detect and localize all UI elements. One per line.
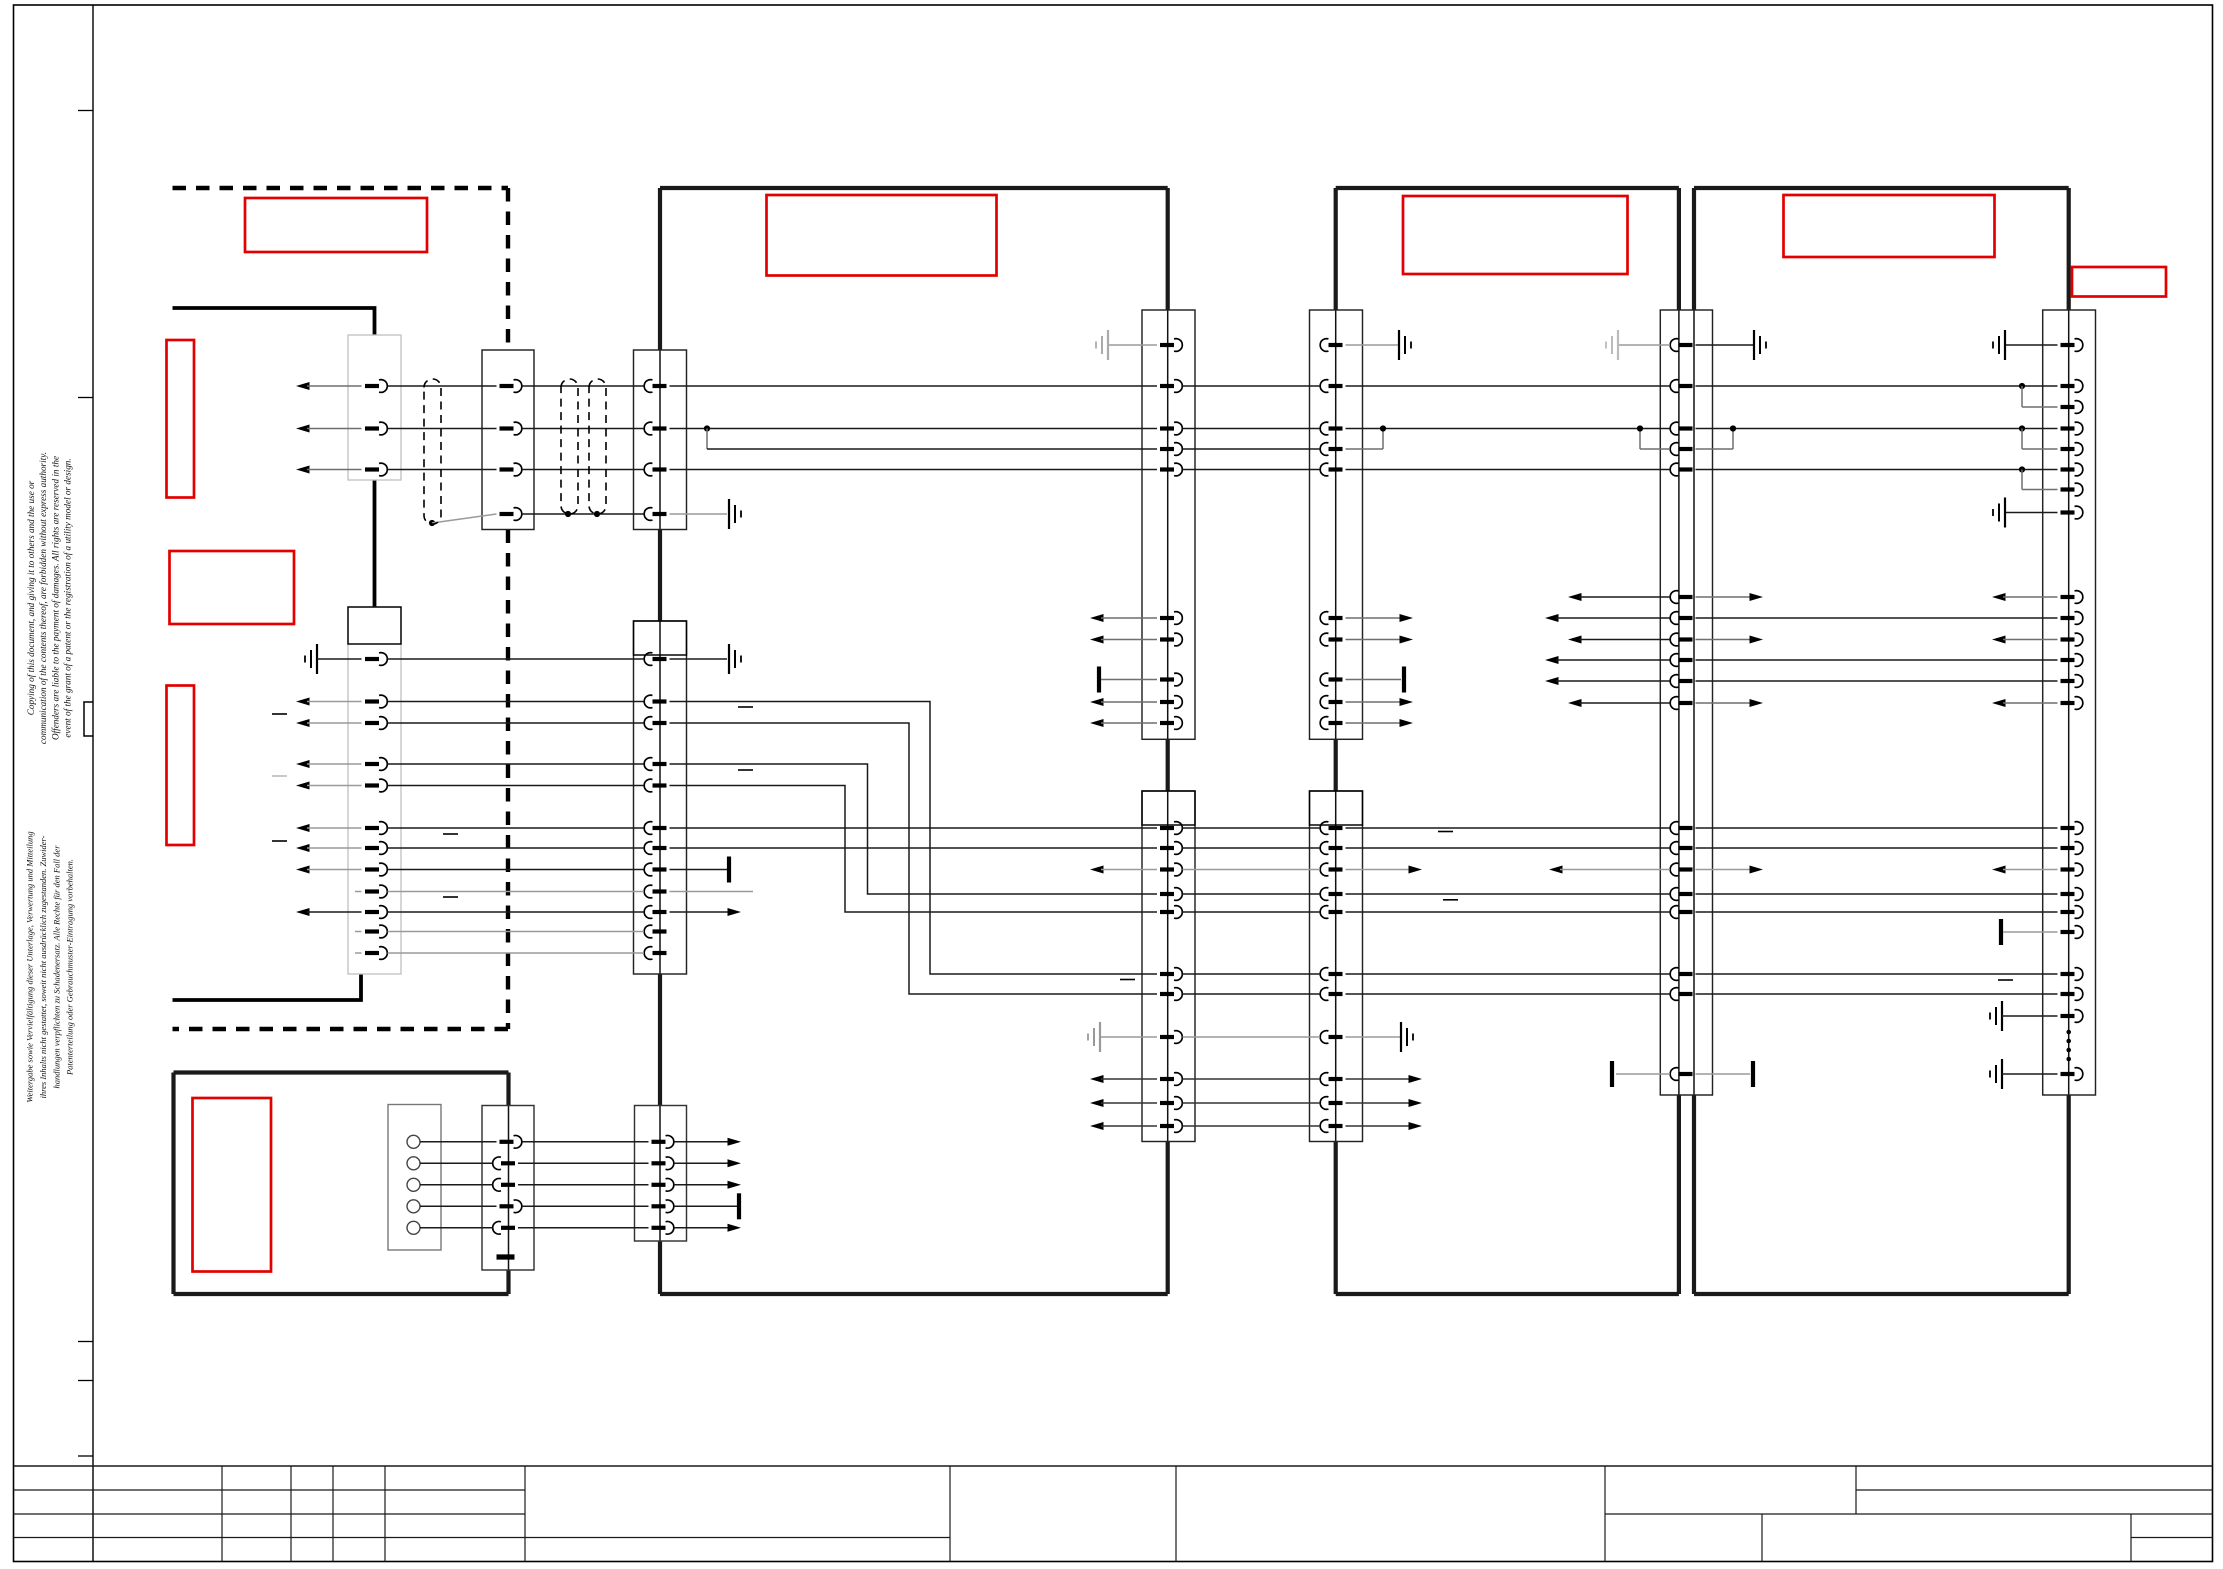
wire X7-X8 row 618 — [1696, 617, 2058, 619]
wire X6b-X7 row 828 — [1346, 827, 1671, 829]
cable pair 1 — [424, 379, 441, 524]
wire X6b-X7 row 912 — [1346, 911, 1671, 913]
wire row A: X3 to X4 — [522, 385, 644, 387]
ground at X6a — [1346, 344, 1400, 346]
ground at X5a — [1108, 344, 1157, 346]
connector X5a pin 6 — [1160, 616, 1174, 620]
X10 arrow row 5 — [674, 1227, 729, 1229]
connector X7 pin 15 — [1679, 892, 1693, 896]
X7 arrow left row 597 — [1568, 593, 1582, 601]
X4b row 869.5 terminator — [670, 869, 728, 871]
box4 right edge through X8 — [2068, 310, 2070, 1095]
X6a arrow row 618 — [1346, 617, 1402, 619]
connector X2 pin 8 — [365, 867, 379, 871]
wire X5b-X6b row 912 — [1183, 911, 1321, 913]
box3 right edge through X7 — [1678, 310, 1680, 1095]
wire X7-X8 row 894 — [1696, 893, 2058, 895]
connector X7 pin 16 — [1679, 910, 1693, 914]
connector X7 pin 7 — [1679, 616, 1693, 620]
box3 left edge through X6a — [1335, 310, 1337, 739]
X6a arrow row 702 — [1346, 701, 1402, 703]
wire row 974: X6b to X7 — [1346, 973, 1671, 975]
connector X10 pin 3 — [652, 1183, 666, 1187]
X7 arrow left row 639.5 — [1568, 636, 1582, 644]
connector X4b pin 8 — [653, 867, 667, 871]
wire X7-X8 row 828 — [1696, 827, 2058, 829]
X8 arrow row 597 — [1992, 593, 2006, 601]
svg-text:Weitergabe sowie Vervielfältig: Weitergabe sowie Vervielfältigung dieser… — [25, 831, 35, 1102]
wire row D: X1 to X3 — [388, 469, 497, 471]
ground at X8 row 1016 — [2001, 1001, 2003, 1031]
wire row E: X3 to X4 with cable shield dots — [522, 513, 644, 515]
connector X3 — [482, 350, 534, 530]
connector X7 pin 17 — [1679, 972, 1693, 976]
connector X4 — [634, 350, 687, 530]
red label box (unit 3) — [1403, 196, 1628, 274]
wire row A: X5a to X6a — [1183, 385, 1321, 387]
connector X2 pin 10 — [365, 910, 379, 914]
X7 terminators row 1074 — [1610, 1061, 1614, 1087]
connector X8 pin 5 — [2061, 447, 2075, 451]
connector X4 pin 4 — [653, 512, 667, 516]
box4 left edge through X7 — [1693, 310, 1695, 1095]
wire X7-X8 row 848 — [1696, 847, 2058, 849]
connector X1 pin 1 — [365, 384, 379, 388]
connector X4b pin 1 — [653, 657, 667, 661]
connector X6a pin 9 — [1329, 700, 1343, 704]
connector X7 pin 2 — [1679, 384, 1693, 388]
connector X4 pin 3 — [653, 467, 667, 471]
wire row 1103 X5b-X6b with arrows — [1090, 1099, 1104, 1107]
terminal TB circle 2 — [407, 1157, 420, 1170]
X7 arrow right row 639.5 — [1696, 639, 1753, 641]
wire row A: X1 to X3 — [388, 385, 497, 387]
connector X2 pin 2 — [365, 699, 379, 703]
wire row 974: X5b to X6b — [1183, 973, 1321, 975]
tick row 974 left — [1120, 979, 1135, 981]
wire row A: X7 to X8 — [1696, 385, 2058, 387]
wire row 1126 X5b-X6b with arrows — [1090, 1122, 1104, 1130]
connector X2 — [348, 607, 401, 974]
wire row B: X6a to X7 — [1346, 428, 1671, 430]
wire X6b-X7 row 848 — [1346, 847, 1671, 849]
red label box (unit 4) — [1784, 195, 1995, 257]
X4b row 912 arrow right — [670, 911, 730, 913]
connector X6a pin 8 — [1329, 677, 1343, 681]
connector X8 pin 12 — [2061, 658, 2075, 662]
connector X9 pin 5 — [501, 1226, 515, 1230]
connector X6b pin 2 — [1329, 846, 1343, 850]
box5 right edge through X9 — [508, 1106, 510, 1271]
wire row C: X5a to X6a — [1183, 448, 1321, 450]
connector X5b pin 8 — [1160, 1035, 1174, 1039]
wire row D arrow (left) — [296, 466, 310, 474]
connector X5a pin 5 — [1160, 467, 1174, 471]
connector X3 pin 4 — [500, 512, 514, 516]
X2 long arrow row 912 — [296, 908, 310, 916]
connector X5b pin 11 — [1160, 1124, 1174, 1128]
wire X5b-X6b row 869.5 — [1183, 869, 1321, 871]
X8 terminator row 932 — [1999, 919, 2003, 945]
wire TB to X9 row 4 — [420, 1205, 497, 1207]
wire X9 to X10 row 2 — [518, 1162, 649, 1164]
X2 pin wire arrow row 848 — [296, 844, 310, 852]
ground at X4b row 659 — [670, 658, 728, 660]
unit box 4 outline — [1694, 188, 2069, 1294]
X2 pin wire arrow row 869.5 — [296, 866, 310, 874]
red label box small right — [2072, 267, 2166, 297]
X10 arrow row 3 — [674, 1184, 729, 1186]
wire row D: X5a to X6a — [1183, 469, 1321, 471]
staircase wire 1 (row 701.5 to row 974) — [670, 702, 1158, 975]
connector X6a pin 5 — [1329, 467, 1343, 471]
staircase wire 2 (row 723 to row 994) — [670, 723, 1158, 994]
connector X10 pin 5 — [652, 1226, 666, 1230]
ground row 1037 (X5b grey, X6b black) — [1099, 1022, 1101, 1052]
wire X2-X4b row 891.5 (grey) — [388, 891, 645, 893]
X2 stub row 891.5 — [355, 891, 362, 893]
connector X9 — [482, 1106, 534, 1271]
connector X6a pin 1 — [1329, 343, 1343, 347]
connector X8 pin 19 — [2061, 910, 2075, 914]
connector X5b — [1142, 791, 1195, 1142]
connector X6a pin 7 — [1329, 637, 1343, 641]
terminal TB circle 4 — [407, 1200, 420, 1213]
connector X3 pin 1 — [500, 384, 514, 388]
X7 arrow right row 703 — [1696, 702, 1753, 704]
connector X7 pin 1 — [1679, 343, 1693, 347]
box2 left edge through X4b — [659, 621, 661, 974]
box2 left edge through X4 — [659, 350, 661, 530]
connector X7 pin 10 — [1679, 679, 1693, 683]
connector X8 ellipsis — [2066, 1030, 2071, 1035]
connector X4b — [634, 621, 687, 974]
connector X8 — [2043, 310, 2096, 1095]
ground at X8 row 512 — [2005, 512, 2058, 514]
connector X7 pin 8 — [1679, 637, 1693, 641]
wire row C stubs at X6a — [1346, 448, 1384, 450]
connector X7 pin 11 — [1679, 701, 1693, 705]
connector X8 pin 16 — [2061, 846, 2075, 850]
unit box 2 outline — [660, 188, 1168, 1294]
connector X7 pin 18 — [1679, 992, 1693, 996]
connector X7 pin 14 — [1679, 867, 1693, 871]
connector X9 spare pin — [497, 1254, 515, 1259]
wire row 994: X7 to X8 — [1696, 993, 2058, 995]
connector X8 pin 11 — [2061, 637, 2075, 641]
connector X5b pin 5 — [1160, 910, 1174, 914]
connector X5a pin 1 — [1160, 343, 1174, 347]
wire X7-X8 row 660 — [1696, 659, 2058, 661]
X5a arrow row 639.5 — [1090, 636, 1104, 644]
connector X5b pin 4 — [1160, 892, 1174, 896]
wire row D: X6a to X7 — [1346, 469, 1671, 471]
X6b arrow row 869.5 — [1346, 869, 1411, 871]
connector X1 — [348, 335, 401, 480]
connector X3 pin 3 — [500, 467, 514, 471]
connector X2 pin 5 — [365, 783, 379, 787]
X6a arrow row 723 — [1346, 722, 1402, 724]
wire X2-X4b row 764 — [388, 763, 645, 765]
wire row E: X4 to ground — [670, 513, 728, 515]
connector X5a pin 8 — [1160, 677, 1174, 681]
svg-text:event of the grant of a patent: event of the grant of a patent or the re… — [63, 458, 73, 737]
connector X10 — [635, 1106, 687, 1242]
unit box 5 outline — [174, 1073, 509, 1295]
connector X2 pin 9 — [365, 889, 379, 893]
thick wire into connector X1 — [173, 308, 375, 335]
svg-text:ihres Inhalts nicht gestattet,: ihres Inhalts nicht gestattet, soweit ni… — [38, 835, 48, 1098]
connector X6b pin 6 — [1329, 972, 1343, 976]
connector X7 pin 6 — [1679, 595, 1693, 599]
X6a terminator row 679.5 — [1346, 679, 1402, 681]
X8 arrow row 639.5 — [1992, 636, 2006, 644]
wire row D: X3 to X4 — [522, 469, 644, 471]
wire row B: X7 to X8 — [1696, 428, 2058, 430]
connector X8 pin 1 — [2061, 343, 2075, 347]
connector X5a pin 4 — [1160, 447, 1174, 451]
connector X2 pin 4 — [365, 762, 379, 766]
connector X5b pin 3 — [1160, 867, 1174, 871]
X8 pin pair stubs — [2019, 383, 2025, 389]
wire row C inside box2 — [704, 425, 710, 431]
wire X2-X4b row 659 — [388, 658, 645, 660]
X5a arrow row 702 — [1090, 698, 1104, 706]
wire X4b row 848 to X5b — [670, 847, 1158, 849]
connector X7 pin 12 — [1679, 826, 1693, 830]
X2 pin wire arrow row 785.5 — [296, 782, 310, 790]
wire row A: X6a to X7 — [1346, 385, 1671, 387]
connector X6a pin 2 — [1329, 384, 1343, 388]
wire row A arrow (left) — [296, 382, 310, 390]
connector X4b pin 10 — [653, 910, 667, 914]
connector X4b pin 12 — [653, 951, 667, 955]
connector X2 pin 11 — [365, 929, 379, 933]
ground left of X7 — [1618, 344, 1670, 346]
ground at X8 row 1074 — [2001, 1059, 2003, 1089]
wire X2-X4b row 869.5 — [388, 869, 645, 871]
connector X8 pin 4 — [2061, 426, 2075, 430]
svg-text:handlungen verpflichten zu Sch: handlungen verpflichten zu Schadenersatz… — [51, 845, 61, 1089]
X2 pin wire arrow row 723 — [296, 719, 310, 727]
wire X5b-X6b row 894 — [1183, 893, 1321, 895]
connector X8 pin 3 — [2061, 405, 2075, 409]
connector X5a pin 10 — [1160, 721, 1174, 725]
connector X4b pin 11 — [653, 929, 667, 933]
X7 arrow left row 660 — [1545, 656, 1559, 664]
connector X5b pin 9 — [1160, 1077, 1174, 1081]
connector X7 pin 4 — [1679, 447, 1693, 451]
ground right of X7 — [1696, 344, 1755, 346]
wire TB to X9 row 2 — [420, 1162, 493, 1164]
X6a arrow row 639.5 — [1346, 639, 1402, 641]
connector X10 pin 4 — [652, 1204, 666, 1208]
X7 arrow left row 703 — [1568, 699, 1582, 707]
box2 right edge through X5a — [1167, 310, 1169, 739]
connector X4 pin 1 — [653, 384, 667, 388]
X5a arrow row 618 — [1090, 614, 1104, 622]
connector X5b pin 1 — [1160, 826, 1174, 830]
thick wire X2 bottom — [173, 974, 362, 1000]
X2 pin wire arrow row 828 — [296, 824, 310, 832]
connector X6a pin 4 — [1329, 447, 1343, 451]
connector X7 pin 3 — [1679, 426, 1693, 430]
tick row 974 — [1998, 979, 2013, 981]
connector X6a pin 6 — [1329, 616, 1343, 620]
box2 left edge through X10 — [659, 1106, 661, 1242]
wire row D: X7 to X8 — [1696, 469, 2058, 471]
connector X8 pin 21 — [2061, 972, 2075, 976]
connector X8 pin 13 — [2061, 679, 2075, 683]
wire X6b-X7 row 894 — [1346, 893, 1671, 895]
wire X2-X4b row 723 — [388, 722, 645, 724]
X7 arrow right row 597 — [1696, 596, 1753, 598]
wire X5b-X6b row 828 — [1183, 827, 1321, 829]
wire row B: X3 to X4 — [522, 428, 644, 430]
connector X6a — [1310, 310, 1363, 739]
wire row 1079 X5b-X6b with arrows — [1090, 1075, 1104, 1083]
connector X8 pin 14 — [2061, 701, 2075, 705]
X7 arrows row 869.5 — [1549, 866, 1563, 874]
ground at X2 row 659 — [316, 644, 318, 674]
X10 arrow row 1 — [674, 1141, 729, 1143]
connector X2 pin 7 — [365, 846, 379, 850]
wire X2-X4b row 701.5 — [388, 701, 645, 703]
wire X9 to X10 row 1 — [522, 1141, 649, 1143]
connector X5b pin 2 — [1160, 846, 1174, 850]
wire X4b row 828 to X5b — [670, 827, 1158, 829]
wire X2-X4b row 953 (grey) — [388, 952, 645, 954]
X10 arrow row 2 — [674, 1162, 729, 1164]
connector X8 pin 24 — [2061, 1072, 2075, 1076]
connector X2 pin 1 — [365, 657, 379, 661]
connector X7 pin 19 — [1679, 1072, 1693, 1076]
connector X6b pin 8 — [1329, 1035, 1343, 1039]
connector X3 pin 2 — [500, 426, 514, 430]
frame left column divider — [92, 5, 94, 1562]
wire TB to X9 row 3 — [420, 1184, 493, 1186]
terminal TB circle 3 — [407, 1178, 420, 1191]
connector X7 pin 13 — [1679, 846, 1693, 850]
connector X8 pin 15 — [2061, 826, 2075, 830]
X8 arrow row 703 — [1992, 699, 2006, 707]
wire X2-X4b row 828 — [388, 827, 645, 829]
connector X7 pin 9 — [1679, 658, 1693, 662]
connector X6b pin 3 — [1329, 867, 1343, 871]
connector X6b pin 4 — [1329, 892, 1343, 896]
connector X8 pin 6 — [2061, 467, 2075, 471]
staircase wire 3 (row 764 to row 894) — [670, 764, 1158, 894]
svg-text:Patenterteilung oder Gebrauchm: Patenterteilung oder Gebrauchmuster-Eint… — [65, 859, 75, 1076]
wire row 994: X6b to X7 — [1346, 993, 1671, 995]
connector X6b pin 1 — [1329, 826, 1343, 830]
wire row B arrow (left) — [296, 425, 310, 433]
connector X1 pin 2 — [365, 426, 379, 430]
connector X6b pin 5 — [1329, 910, 1343, 914]
connector X9 pin 2 — [501, 1161, 515, 1165]
connector X2 pin 12 — [365, 951, 379, 955]
wire X2-X4b row 785.5 — [388, 785, 645, 787]
X5a arrow row 723 — [1090, 719, 1104, 727]
box2 right edge through X5b — [1167, 791, 1169, 1142]
X2 pin wire arrow row 764 — [296, 760, 310, 768]
connector X1 pin 3 — [365, 467, 379, 471]
X7 arrow left row 681 — [1545, 677, 1559, 685]
connector X5a pin 7 — [1160, 637, 1174, 641]
connector X9 pin 1 — [500, 1140, 514, 1144]
wire row B: X1 to X3 — [388, 428, 497, 430]
red label box mid — [170, 551, 295, 624]
connector X2 pin 6 — [365, 826, 379, 830]
frame centering ticks — [78, 110, 93, 112]
title block — [14, 1466, 2213, 1562]
box3 left edge through X6b — [1335, 791, 1337, 1142]
connector X10 pin 1 — [652, 1140, 666, 1144]
cable pair 2 — [561, 379, 578, 514]
connector X5b pin 10 — [1160, 1101, 1174, 1105]
connector X8 pin 23 — [2061, 1014, 2075, 1018]
svg-text:Offenders are liable to the pa: Offenders are liable to the payment of d… — [50, 456, 60, 740]
connector X4b pin 5 — [653, 783, 667, 787]
connector X8 pin 2 — [2061, 384, 2075, 388]
wire row B: X5a to X6a — [1183, 428, 1321, 430]
terminal block TB — [388, 1105, 441, 1251]
connector X10 pin 2 — [652, 1161, 666, 1165]
connector X4b pin 4 — [653, 762, 667, 766]
connector X8 pin 9 — [2061, 595, 2075, 599]
connector X8 pin 7 — [2061, 487, 2075, 491]
wire X2-X4b row 848 — [388, 847, 645, 849]
connector X6a pin 10 — [1329, 721, 1343, 725]
wire X9 to X10 row 4 — [522, 1205, 649, 1207]
wire X9 to X10 row 3 — [518, 1184, 649, 1186]
connector X6a pin 3 — [1329, 426, 1343, 430]
wire X9 to X10 row 5 — [518, 1227, 649, 1229]
connector X4b pin 9 — [653, 889, 667, 893]
wire X7-X8 row 912 — [1696, 911, 2058, 913]
connector X4b pin 7 — [653, 846, 667, 850]
connector X8 pin 20 — [2061, 930, 2075, 934]
wire row C stubs at X7 — [1640, 448, 1670, 450]
connector X4b pin 6 — [653, 826, 667, 830]
wire X7-X8 row 681 — [1696, 680, 2058, 682]
connector X5b pin 7 — [1160, 992, 1174, 996]
wire number ticks left — [272, 713, 287, 715]
dashed enclosure outline — [173, 186, 509, 190]
wire X2-X4b row 912 — [388, 911, 645, 913]
X10 terminator row 4 — [674, 1205, 737, 1207]
wire row 994: X5b to X6b — [1183, 993, 1321, 995]
connector X2 pin 3 — [365, 721, 379, 725]
connector X6b — [1310, 791, 1363, 1142]
connector X5a pin 2 — [1160, 384, 1174, 388]
connector X4b pin 3 — [653, 721, 667, 725]
red label box (unit 2) — [767, 195, 997, 276]
connector X8 pin 22 — [2061, 992, 2075, 996]
connector X9 pin 4 — [500, 1204, 514, 1208]
X5a terminator row 679.5 — [1097, 667, 1101, 693]
connector X8 pin 17 — [2061, 867, 2075, 871]
connector X4 pin 2 — [653, 426, 667, 430]
wire X2-X4b row 931.5 (grey) — [388, 931, 645, 933]
X2 stub row 931.5 — [355, 931, 362, 933]
wire X5b-X6b row 848 — [1183, 847, 1321, 849]
connector X8 pin 10 — [2061, 616, 2075, 620]
wire TB to X9 row 5 — [420, 1227, 493, 1229]
connector X6b pin 11 — [1329, 1124, 1343, 1128]
connector X5a pin 3 — [1160, 426, 1174, 430]
connector X5a pin 9 — [1160, 700, 1174, 704]
